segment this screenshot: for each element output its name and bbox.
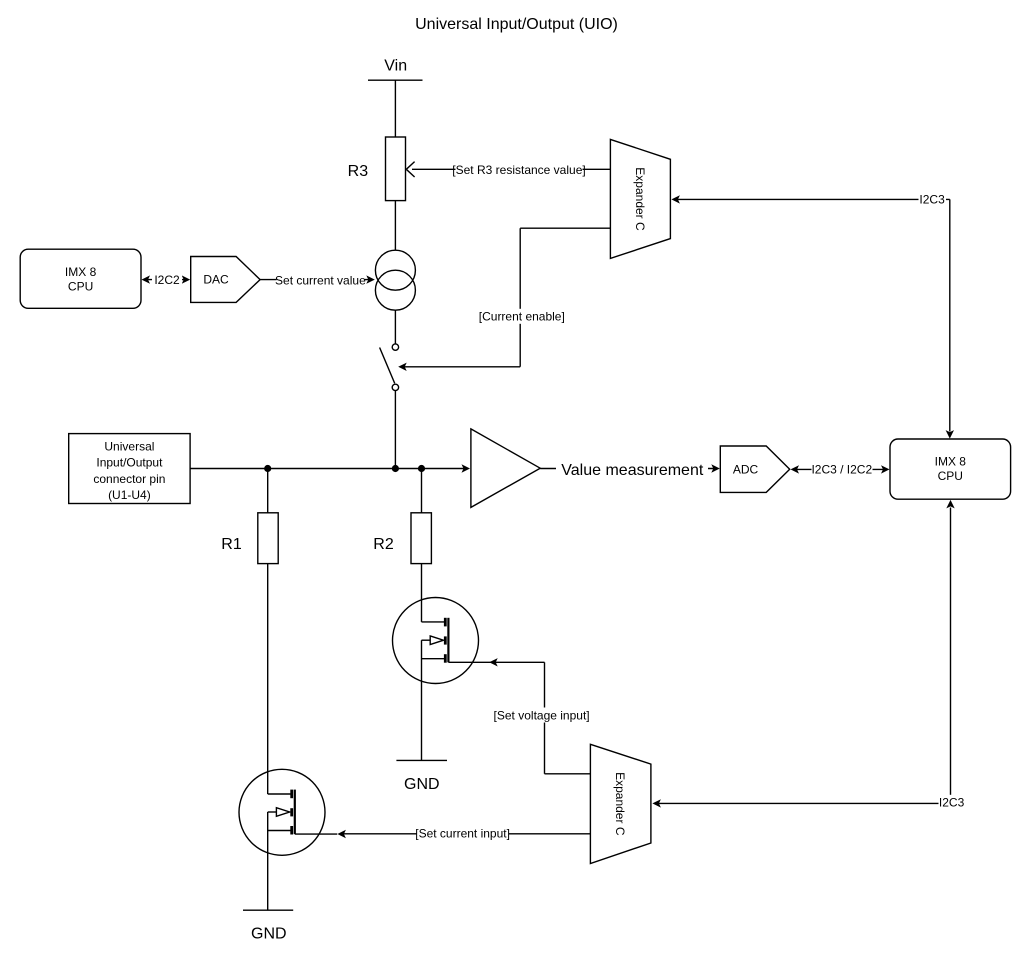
ground (upper GND) [396, 760, 447, 793]
ADC U8 [720, 446, 789, 492]
svg-text:Vin: Vin [384, 58, 407, 75]
svg-text:Universal: Universal [104, 439, 154, 453]
arrowhead into ADC [711, 464, 720, 472]
svg-text:IMX 8: IMX 8 [935, 455, 967, 469]
svg-text:CPU: CPU [68, 280, 93, 294]
arrowhead into current source [366, 275, 375, 283]
connector pin box (Universal Input/Output connector pin U1-U4) [69, 434, 190, 504]
edge label [Set R3 resistance value] [456, 162, 583, 177]
svg-text:[Set voltage input]: [Set voltage input] [494, 708, 590, 722]
transistor Q2 (NMOS, upper) [393, 598, 491, 761]
arrowhead into CPU (right) [881, 465, 890, 473]
svg-text:Expander C: Expander C [633, 167, 647, 231]
svg-text:CPU: CPU [938, 469, 963, 483]
arrowhead into Q1 gate [337, 830, 346, 838]
svg-text:I2C3: I2C3 [939, 795, 965, 809]
IMX 8 CPU U9 (right) [890, 439, 1011, 499]
svg-text:Set current value: Set current value [275, 273, 366, 287]
wire R2 to transistor Q2 drain [421, 564, 423, 622]
resistor R2 [411, 513, 431, 564]
junction at R1 branch [264, 465, 271, 472]
net label I2C3 (bottom) [939, 795, 967, 810]
svg-text:Universal Input/Output (UIO): Universal Input/Output (UIO) [415, 16, 618, 33]
svg-text:GND: GND [404, 776, 440, 793]
wire R2 branch [421, 469, 423, 513]
edge label [Set current input] [417, 826, 509, 841]
wire Set current input to Q1 gate [343, 833, 590, 835]
junction at switch branch [392, 465, 399, 472]
svg-text:[Set current input]: [Set current input] [415, 826, 510, 840]
wire I2C2 CPU-DAC [147, 279, 185, 281]
svg-text:[Current enable]: [Current enable] [479, 309, 565, 323]
wire Current enable vertical [519, 228, 521, 367]
arrowhead into CPU (left) [142, 275, 151, 283]
transistor Q1 (NMOS, lower) [239, 769, 337, 910]
wire I2C3 bottom horizontal [658, 802, 951, 804]
wire Current enable horizontal from expander [520, 227, 610, 229]
svg-text:IMX 8: IMX 8 [65, 265, 97, 279]
net label I2C2 [152, 272, 182, 287]
open arrowhead into R3 [406, 162, 414, 177]
wire I2C3 top horizontal [677, 198, 950, 200]
svg-text:R2: R2 [373, 536, 394, 553]
arrowhead into expander C top [671, 195, 680, 203]
wire R1 branch [267, 469, 269, 513]
resistor R3 (digital potentiometer) [386, 137, 406, 201]
wire R3 to current source [394, 201, 396, 251]
svg-text:(U1-U4): (U1-U4) [108, 488, 151, 502]
wire main net [190, 468, 464, 470]
wire current source to switch [394, 310, 396, 344]
wire Set R3 resistance value [412, 168, 610, 170]
svg-text:ADC: ADC [733, 463, 759, 477]
svg-text:R3: R3 [348, 163, 369, 180]
edge label [Current enable] [480, 309, 564, 324]
wire Value measurement to ADC [540, 468, 714, 470]
edge label [Set voltage input] [494, 708, 590, 723]
IMX 8 CPU U5 (left) [20, 249, 141, 308]
wire I2C3 bottom vertical up to CPU [950, 508, 952, 804]
svg-text:connector pin: connector pin [93, 472, 165, 486]
arrowhead into Q2 gate [489, 658, 498, 666]
wire Vin to R3 [394, 80, 396, 137]
arrowhead into DAC [182, 275, 191, 283]
Vin supply rail [368, 79, 423, 81]
DAC U6 [191, 257, 260, 303]
expander U10 Expander C (bottom) [590, 744, 651, 863]
arrowhead into switch [398, 363, 407, 371]
svg-text:R1: R1 [221, 536, 242, 553]
arrowhead down into CPU top [946, 430, 954, 439]
svg-text:Input/Output: Input/Output [96, 456, 163, 470]
wire Current enable to switch [404, 366, 520, 368]
switch S1 [380, 344, 399, 391]
svg-text:I2C2: I2C2 [154, 273, 180, 287]
svg-text:I2C3: I2C3 [919, 193, 945, 207]
svg-text:Value measurement: Value measurement [561, 462, 704, 479]
wire I2C3 top vertical down to CPU [949, 199, 951, 431]
ground (lower GND) [243, 910, 293, 942]
wire Set voltage input to Q2 gate [495, 662, 590, 774]
arrowhead into ADC point [791, 465, 800, 473]
edge label Set current value [277, 272, 365, 287]
svg-text:[Set R3 resistance value]: [Set R3 resistance value] [452, 163, 585, 177]
arrowhead up into CPU bottom [946, 500, 954, 509]
svg-text:GND: GND [251, 926, 287, 943]
wire I2C3 / I2C2 ADC-CPU [796, 468, 884, 470]
edge label Value measurement [556, 460, 708, 478]
expander U7 Expander C (top) [610, 139, 670, 258]
wire switch to main node [394, 391, 396, 469]
arrowhead into buffer amp [462, 464, 471, 472]
arrowhead into expander C bottom [652, 799, 661, 807]
current source I1 [375, 250, 415, 310]
wire R1 to transistor Q1 drain [267, 564, 269, 794]
resistor R1 [258, 513, 278, 564]
wire Set current value DAC to current source [260, 279, 369, 281]
junction at R2 branch [418, 465, 425, 472]
svg-text:DAC: DAC [203, 273, 229, 287]
svg-text:I2C3 / I2C2: I2C3 / I2C2 [811, 463, 872, 477]
svg-text:Expander C: Expander C [613, 772, 627, 836]
net label I2C3 / I2C2 [812, 462, 873, 477]
op-amp buffer A1 [471, 429, 540, 508]
net label I2C3 (top) [919, 192, 947, 207]
